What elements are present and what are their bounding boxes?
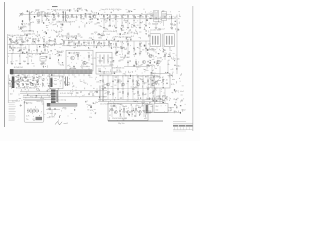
wire: [52, 89, 54, 102]
capacitor C31: [15, 39, 17, 42]
svg-text:0.1 1n reg: 0.1 1n reg: [58, 99, 66, 101]
resistor R16: [133, 15, 134, 17]
svg-text:R77p: R77p: [158, 21, 162, 23]
capacitor C72: [99, 70, 101, 72]
svg-text:171: 171: [23, 61, 26, 63]
wire: [133, 19, 135, 27]
svg-text:727R: 727R: [75, 43, 80, 45]
component cluster volume: [41, 56, 64, 68]
svg-text:Cu02: Cu02: [153, 82, 157, 84]
svg-text:pRnk: pRnk: [62, 108, 66, 110]
svg-text:2k2: 2k2: [98, 69, 101, 71]
component cluster left low: [8, 56, 34, 67]
svg-text:BC548 0.1 22k: BC548 0.1 22k: [22, 31, 34, 33]
wire: [100, 18, 176, 20]
svg-text:2n: 2n: [74, 76, 76, 78]
wire rail: [176, 15, 178, 75]
wire: [121, 19, 123, 27]
component cluster osc: [150, 10, 180, 32]
capacitor C66: [127, 60, 129, 67]
bus wires: [20, 91, 51, 99]
module box detector: [96, 52, 112, 74]
wire net42: [73, 40, 75, 46]
svg-text:001: 001: [96, 82, 99, 84]
capacitor C99: [166, 82, 168, 84]
resistor R15: [127, 15, 128, 17]
resistor R43: [78, 41, 79, 44]
transistor Q3: [71, 56, 75, 60]
svg-text:n1: n1: [10, 62, 12, 64]
svg-text:0.1 osc: 0.1 osc: [47, 113, 53, 115]
ground: [29, 30, 31, 31]
ground: [139, 53, 141, 54]
wire row: [101, 87, 150, 89]
svg-text:8122: 8122: [157, 96, 161, 98]
wire: [151, 64, 153, 76]
wire net61: [107, 76, 109, 100]
svg-text:R7p: R7p: [61, 43, 64, 45]
polarity mark: [20, 105, 22, 107]
wire: [46, 109, 60, 111]
svg-text:80p: 80p: [157, 61, 160, 63]
capacitor C101: [54, 107, 56, 109]
ground: [115, 27, 117, 28]
transistor Q8: [107, 83, 110, 86]
svg-text:48n: 48n: [148, 35, 151, 37]
battery cells: [28, 109, 39, 114]
resistor R58: [135, 61, 136, 64]
ground: [170, 28, 172, 29]
svg-text:R1: R1: [89, 17, 91, 19]
potentiometer VR1: [40, 57, 46, 62]
resistor R13: [115, 15, 116, 17]
crystal X1: [64, 77, 66, 87]
wire net55: [145, 41, 147, 53]
svg-text:n42: n42: [141, 17, 144, 19]
component cluster right mid: [113, 30, 151, 56]
wire net54: [139, 41, 141, 53]
svg-text:Cn4: Cn4: [106, 34, 109, 36]
resistor R12: [109, 15, 110, 17]
svg-text:1p7: 1p7: [70, 42, 73, 44]
svg-text:004: 004: [37, 13, 40, 15]
svg-text:047R: 047R: [92, 58, 97, 60]
wire net32: [27, 54, 29, 63]
svg-text:n1: n1: [44, 32, 46, 34]
capacitor C48: [49, 56, 51, 58]
svg-text:041: 041: [148, 43, 151, 45]
svg-text:807: 807: [100, 34, 103, 36]
capacitor C13: [109, 24, 111, 26]
wire net52: [127, 41, 129, 53]
resistor R34: [32, 38, 33, 42]
svg-text:56p 10u: 56p 10u: [118, 123, 125, 125]
svg-text:k2p: k2p: [76, 93, 79, 95]
wire: [163, 21, 165, 27]
capacitor C115: [131, 106, 133, 117]
wire: [164, 88, 166, 103]
component cluster AF inner: [68, 52, 97, 70]
wire net68: [142, 76, 144, 100]
svg-text:4n: 4n: [112, 93, 114, 95]
svg-text:1u04: 1u04: [123, 106, 127, 108]
svg-text:0R4u: 0R4u: [110, 64, 114, 66]
resistor R7: [80, 15, 81, 19]
resistor R54: [139, 43, 140, 46]
svg-text:1088: 1088: [36, 20, 40, 22]
svg-text:4.7k: 4.7k: [171, 84, 174, 86]
wire: [32, 42, 34, 44]
IF transformer T2: [162, 12, 167, 21]
wire rail: [7, 34, 9, 64]
wire net10: [103, 15, 105, 19]
wire: [10, 42, 12, 44]
svg-text:np: np: [126, 20, 128, 22]
coil L7: [107, 55, 109, 64]
resistor R70: [17, 79, 18, 82]
wire net17: [145, 15, 147, 19]
svg-text:p8un: p8un: [157, 80, 161, 82]
capacitor C63: [133, 47, 135, 49]
svg-text:CRu: CRu: [20, 80, 24, 82]
svg-text:0u4: 0u4: [104, 84, 107, 86]
svg-text:0.1 osc: 0.1 osc: [152, 24, 158, 26]
component cluster output area: [151, 72, 184, 104]
svg-text:8012: 8012: [182, 110, 186, 112]
wire: [171, 15, 173, 24]
svg-text:C22n: C22n: [19, 45, 23, 47]
wire net48: [103, 40, 105, 46]
svg-text:n0C0: n0C0: [98, 61, 102, 63]
terminal block TB3: [51, 95, 56, 97]
svg-text:p72: p72: [108, 44, 111, 46]
resistor R32: [21, 38, 22, 42]
component cluster driver: [146, 47, 180, 69]
svg-text:4uu1: 4uu1: [26, 11, 30, 13]
component cluster det inner: [97, 57, 114, 74]
svg-text:88: 88: [80, 37, 82, 39]
svg-text:k2: k2: [46, 44, 48, 46]
diode D2: [62, 15, 64, 19]
svg-text:78n0: 78n0: [50, 40, 54, 42]
module box power supply: [108, 103, 148, 121]
component cluster jack area: [146, 98, 186, 114]
bus wires: [108, 120, 163, 121]
node NBUS: [112, 40, 150, 42]
resistor R89: [147, 80, 148, 83]
wire: [167, 60, 169, 73]
svg-text:Cu7: Cu7: [162, 28, 165, 30]
capacitor C5: [57, 15, 59, 18]
svg-text:70: 70: [152, 73, 154, 75]
wire: [80, 66, 90, 68]
component cluster bias row: [51, 21, 101, 28]
capacitor C15: [121, 24, 123, 26]
component cluster RF row: [51, 8, 100, 22]
wire net31: [19, 54, 21, 63]
component cluster tuner: [22, 9, 51, 23]
svg-text:kR74: kR74: [81, 19, 85, 21]
svg-text:71: 71: [119, 71, 121, 73]
svg-text:C4: C4: [118, 60, 120, 62]
resistor R52: [127, 43, 128, 46]
transistor Q11: [122, 83, 125, 86]
wire: [29, 22, 31, 30]
transistor Q26: [115, 111, 118, 114]
svg-text:pn14: pn14: [30, 22, 34, 24]
svg-text:2k1: 2k1: [138, 95, 141, 97]
resistor R83: [117, 80, 118, 83]
svg-text:17u: 17u: [89, 77, 92, 79]
resistor R50: [115, 43, 116, 46]
antenna AE1: [19, 13, 23, 17]
capacitor C95: [127, 80, 129, 82]
diode D8: [89, 15, 91, 19]
svg-text:22: 22: [114, 76, 116, 78]
svg-text:ku71: ku71: [111, 40, 115, 42]
svg-text:1n 470: 1n 470: [49, 117, 55, 119]
component cluster left mid: [8, 34, 64, 57]
resistor R86: [132, 80, 133, 83]
wire: [139, 19, 141, 27]
svg-text:nk: nk: [34, 43, 36, 45]
svg-text:kkn2: kkn2: [180, 91, 184, 93]
capacitor C90: [96, 91, 98, 93]
svg-text:R21C: R21C: [136, 67, 141, 69]
capacitor C70: [73, 66, 75, 68]
capacitor C19: [145, 24, 147, 26]
svg-text:Rn0: Rn0: [99, 38, 102, 40]
svg-text:p1: p1: [152, 70, 154, 72]
wire net45: [88, 40, 90, 46]
wire: [115, 19, 117, 27]
component cluster mid low: [113, 55, 149, 73]
resistor R95: [152, 91, 153, 94]
variable capacitor C1: [38, 13, 40, 16]
svg-text:1n4u: 1n4u: [176, 65, 180, 67]
svg-text:R4u: R4u: [145, 70, 148, 72]
wire net13: [121, 15, 123, 19]
resistor R10: [94, 15, 95, 19]
resistor R95: [162, 79, 163, 82]
svg-text:C72: C72: [38, 77, 41, 79]
resistor R92: [137, 91, 138, 94]
wire: [159, 88, 161, 103]
coil L8: [99, 86, 101, 102]
transformer T4: [164, 34, 174, 47]
svg-text:1kn: 1kn: [34, 80, 37, 82]
trimmer C3: [46, 13, 48, 16]
svg-text:u84: u84: [23, 41, 26, 43]
wire: [41, 16, 43, 23]
terminal block TB1: [51, 90, 56, 92]
capacitor C11: [84, 15, 86, 18]
svg-text:un: un: [153, 90, 155, 92]
svg-text:kpk: kpk: [177, 59, 180, 61]
capacitor C101: [132, 88, 134, 90]
svg-text:4nn: 4nn: [89, 38, 92, 40]
wire net53: [133, 41, 135, 53]
bus wires: [98, 100, 163, 102]
svg-text:BC548 2k2: BC548 2k2: [14, 67, 23, 69]
svg-text:00: 00: [145, 114, 147, 116]
svg-text:u0: u0: [107, 17, 109, 19]
svg-text:mix: mix: [54, 80, 57, 82]
svg-text:4n: 4n: [166, 79, 168, 81]
resistor R80: [102, 80, 103, 83]
svg-text:u1: u1: [93, 47, 95, 49]
capacitor C65: [145, 47, 147, 49]
svg-text:uu: uu: [77, 34, 79, 36]
node PBUS: [100, 75, 158, 77]
resistor R92: [112, 93, 113, 96]
capacitor C17: [133, 24, 135, 26]
resistor R95: [127, 93, 128, 96]
svg-text:pn22: pn22: [143, 82, 147, 84]
svg-text:CpR8: CpR8: [133, 87, 138, 89]
component cluster center mid: [63, 32, 115, 49]
coil L6: [103, 55, 105, 64]
resistor R14: [121, 15, 122, 17]
resistor R100: [111, 108, 112, 111]
capacitor C85: [42, 79, 44, 81]
wire net67: [137, 76, 139, 100]
svg-text:nn: nn: [43, 114, 45, 116]
capacitor C118: [143, 106, 145, 117]
capacitor C43: [36, 44, 38, 49]
node J1: [34, 16, 36, 18]
svg-text:uR4k: uR4k: [127, 37, 131, 39]
shielded cable W1: [10, 69, 92, 74]
capacitor C75: [169, 55, 171, 57]
wire net69: [147, 76, 149, 100]
transistor Q17: [152, 83, 155, 86]
svg-text:211: 211: [47, 76, 50, 78]
module box speaker: [154, 104, 168, 113]
transistor Q6: [157, 60, 160, 63]
capacitor C86: [17, 83, 19, 85]
resistor R65: [164, 54, 165, 57]
capacitor C104: [147, 88, 149, 90]
svg-text:80u: 80u: [104, 20, 107, 22]
component cluster bus area: [16, 86, 59, 103]
ground: [11, 63, 13, 64]
svg-text:np4: np4: [73, 47, 76, 49]
wire: [145, 19, 147, 27]
svg-text:Cp1C: Cp1C: [149, 18, 154, 20]
capacitor C37: [48, 39, 50, 42]
svg-text:Rup: Rup: [48, 108, 51, 110]
svg-text:01pR: 01pR: [78, 8, 83, 10]
svg-text:842: 842: [123, 112, 126, 114]
svg-text:nCn7: nCn7: [10, 86, 14, 88]
svg-text:21: 21: [50, 94, 52, 96]
svg-text:178: 178: [111, 110, 114, 112]
wire: [62, 45, 112, 47]
capacitor C83: [32, 79, 34, 81]
terminal block TB4: [51, 98, 56, 100]
wire: [161, 34, 163, 47]
wire: [51, 110, 53, 117]
wire: [155, 22, 157, 28]
shielded cable W2: [47, 103, 77, 106]
resistor R38: [54, 38, 55, 42]
ground: [103, 27, 105, 28]
svg-text:7uk: 7uk: [159, 29, 162, 31]
svg-text:0n78: 0n78: [112, 14, 116, 16]
svg-text:8p: 8p: [81, 68, 83, 70]
svg-text:uu7n: uu7n: [83, 42, 87, 44]
svg-text:82: 82: [85, 83, 87, 85]
transformer T3: [150, 34, 160, 47]
capacitor C90: [37, 83, 39, 85]
svg-text:022C: 022C: [88, 14, 93, 16]
capacitor C112: [119, 106, 121, 117]
capacitor C98: [117, 88, 119, 90]
svg-text:p7: p7: [129, 72, 131, 74]
wire net66: [132, 76, 134, 100]
wire: [144, 112, 181, 114]
svg-text:4k: 4k: [168, 64, 170, 66]
svg-text:R18: R18: [105, 29, 108, 31]
resistor R79: [32, 83, 33, 86]
resistor R18: [145, 15, 146, 17]
capacitor C95: [102, 88, 104, 90]
svg-text:1kp8: 1kp8: [173, 99, 177, 101]
resistor R77: [22, 83, 23, 86]
wire: [127, 19, 129, 27]
component cluster main board: [100, 70, 161, 105]
capacitor C35: [37, 39, 39, 42]
module box output stage: [151, 74, 170, 89]
terminal block TB5: [51, 101, 56, 103]
resistor R89: [122, 91, 123, 94]
transistor Q32: [139, 111, 142, 114]
wire net70: [152, 76, 154, 100]
svg-text:u48k: u48k: [96, 23, 100, 25]
wire net65: [127, 76, 129, 100]
resistor R4: [67, 15, 68, 19]
resistor R103: [123, 108, 124, 111]
variable capacitor C2: [42, 12, 44, 16]
resistor R40: [63, 41, 64, 44]
svg-text:C0p: C0p: [151, 80, 154, 82]
resistor R11: [103, 15, 104, 17]
module box AF amplifier: [66, 50, 93, 71]
wire net30: [11, 54, 13, 63]
wire net62: [112, 76, 114, 100]
ground: [155, 28, 157, 29]
svg-text:n7C8: n7C8: [17, 40, 21, 42]
wire: [154, 88, 156, 103]
svg-text:7278: 7278: [147, 113, 151, 115]
svg-text:2k1: 2k1: [176, 90, 179, 92]
svg-text:mix: mix: [172, 79, 175, 81]
resistor R1: [53, 15, 54, 19]
capacitor C42: [28, 44, 30, 49]
svg-text:n18: n18: [159, 58, 162, 60]
svg-text:470: 470: [90, 110, 93, 112]
svg-text:Cn1p: Cn1p: [31, 87, 35, 89]
svg-text:7k8: 7k8: [28, 38, 31, 40]
svg-text:421: 421: [61, 51, 64, 53]
transistor Q29: [127, 111, 130, 114]
wire net14: [127, 15, 129, 19]
svg-text:740: 740: [123, 73, 126, 75]
svg-text:470 BC548 mix: 470 BC548 mix: [112, 68, 124, 70]
svg-text:p2: p2: [68, 65, 70, 67]
capacitor C57: [98, 40, 100, 42]
